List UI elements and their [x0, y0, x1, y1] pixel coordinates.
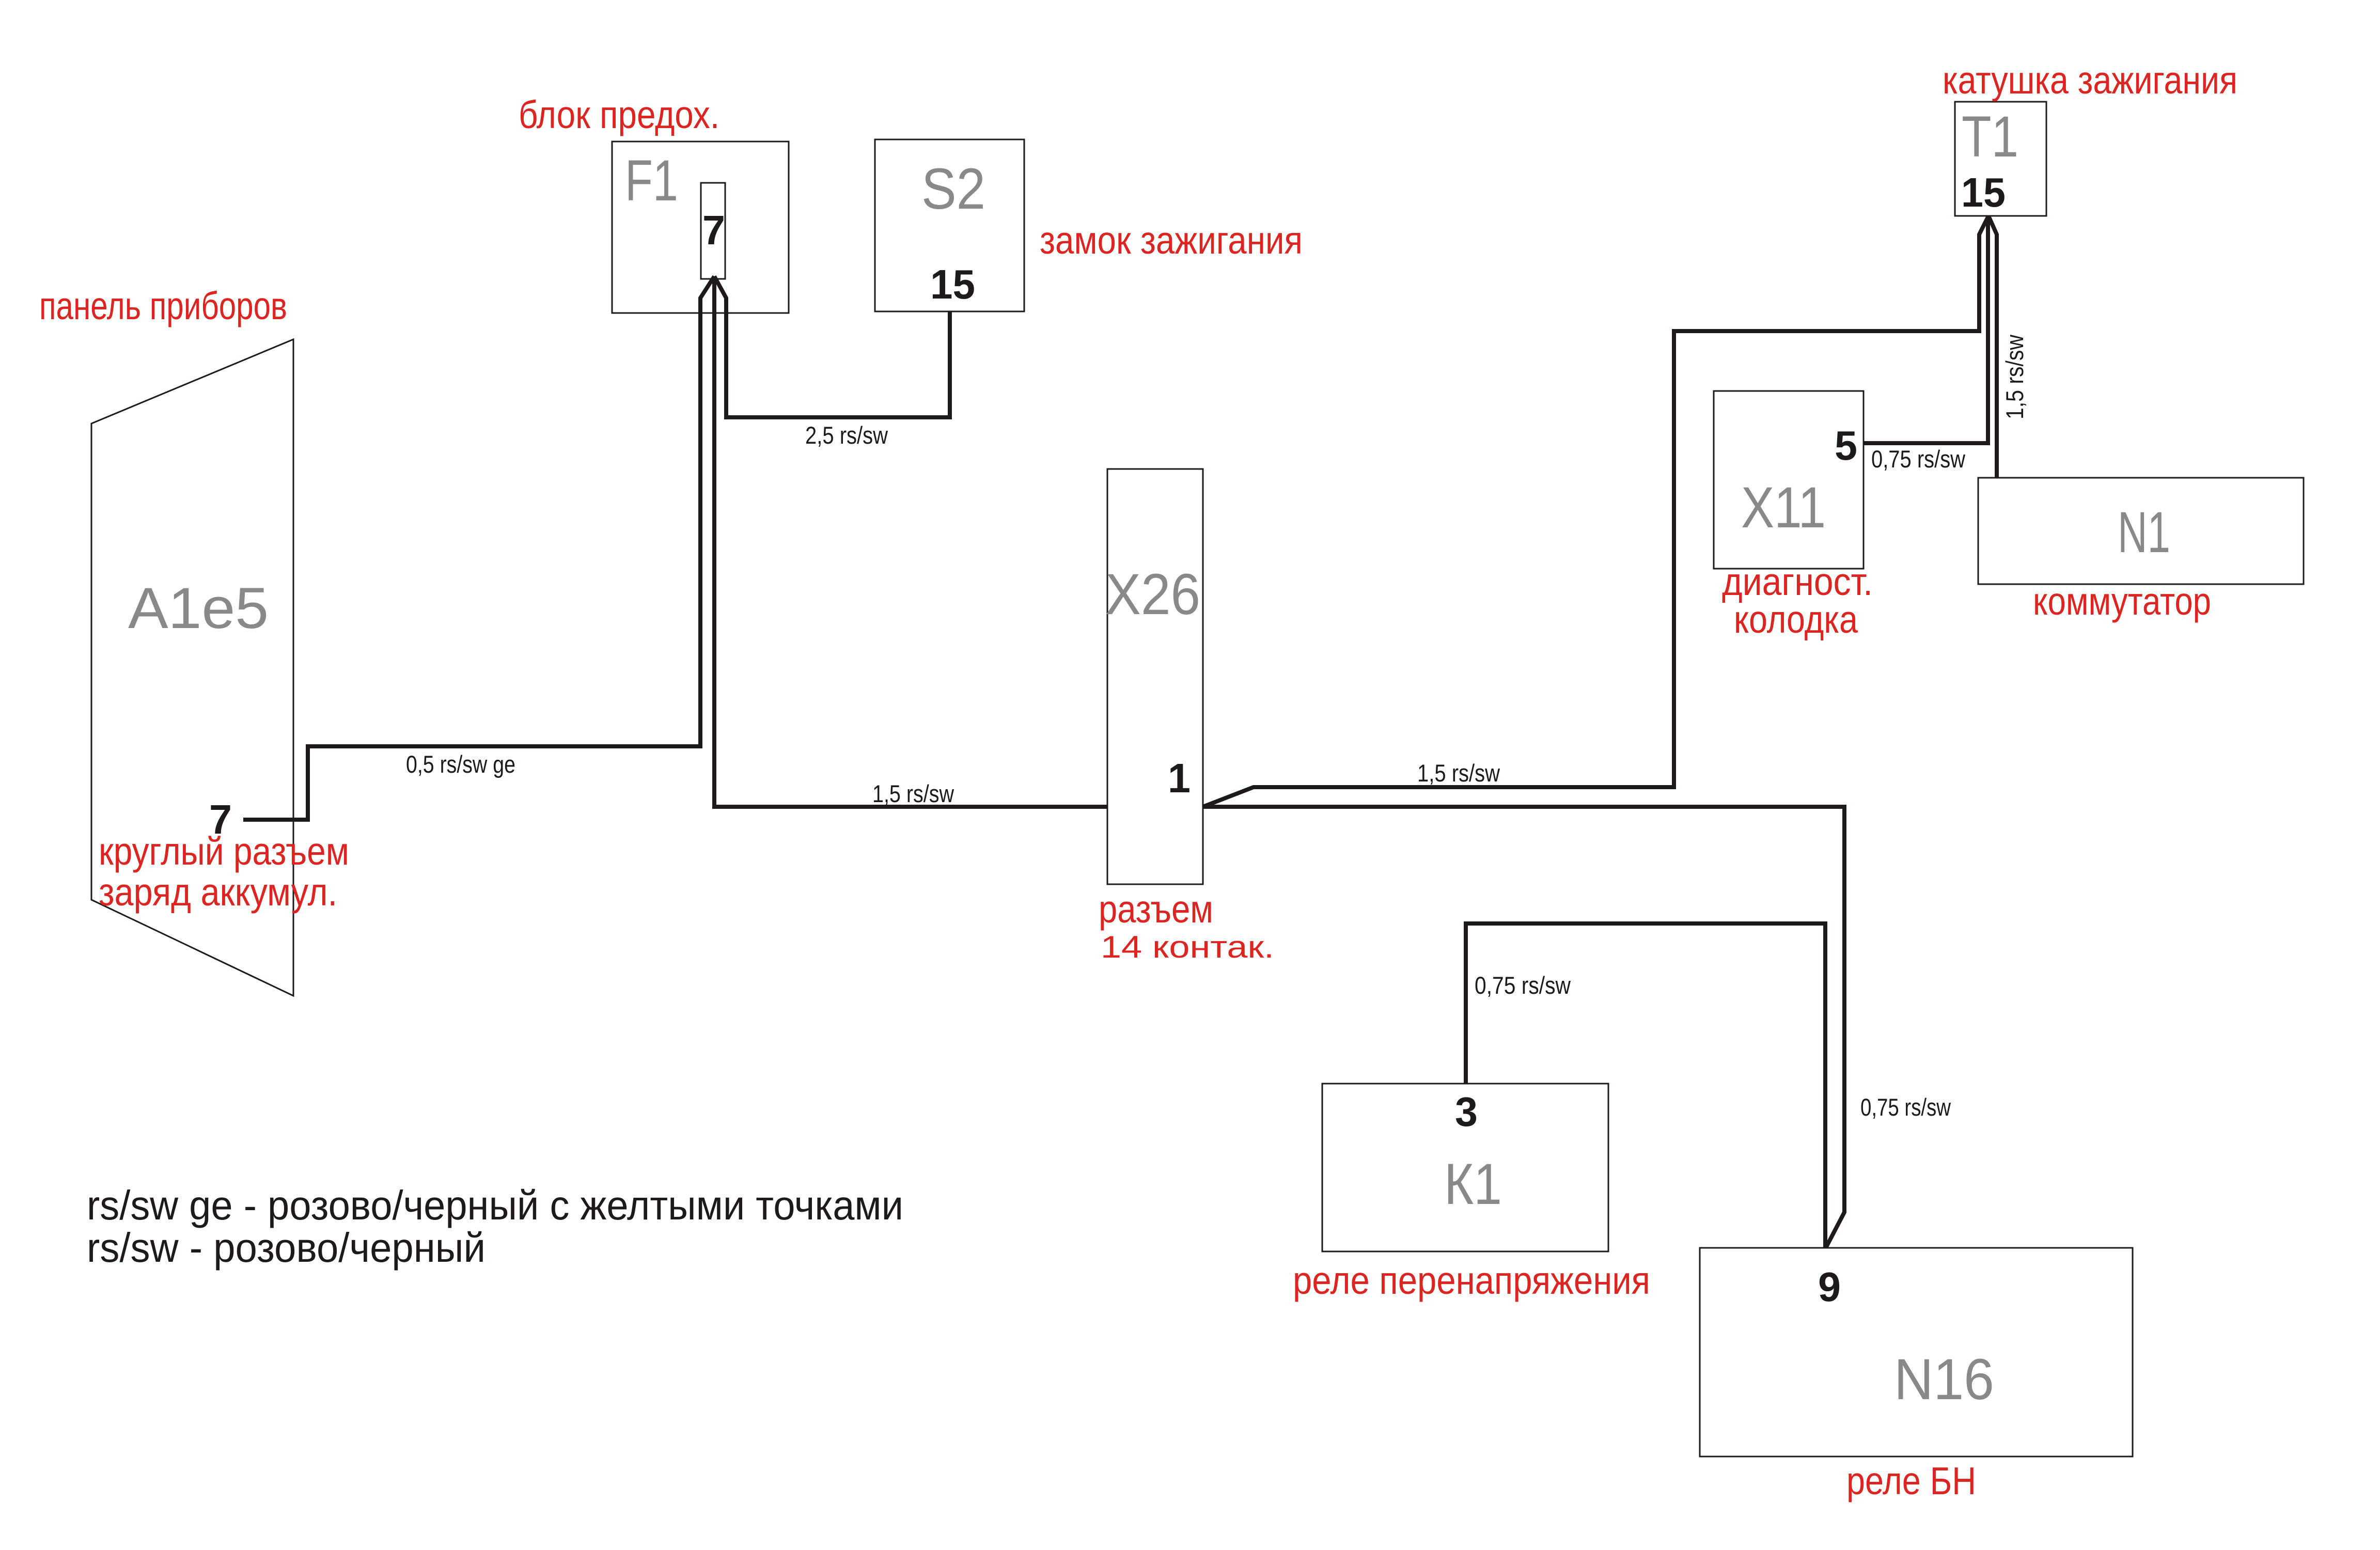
- ignition switch S2: [875, 139, 1024, 311]
- svg-text:T1: T1: [1962, 104, 2018, 169]
- svg-text:S2: S2: [921, 156, 985, 221]
- wire: X11 pin5 to T1 arrow (0,75 rs/sw): [1864, 217, 1988, 443]
- svg-text:реле БН: реле БН: [1846, 1459, 1976, 1502]
- svg-text:1,5 rs/sw: 1,5 rs/sw: [872, 780, 954, 807]
- svg-text:заряд аккумул.: заряд аккумул.: [99, 870, 337, 914]
- panel A1e5 (instrument panel quadrilateral): [91, 339, 293, 996]
- svg-text:F1: F1: [625, 148, 678, 213]
- connector X26: [1107, 469, 1203, 884]
- svg-text:N1: N1: [2118, 500, 2170, 565]
- svg-text:блок предох.: блок предох.: [519, 93, 719, 136]
- svg-text:7: 7: [209, 796, 232, 842]
- svg-text:rs/sw - розово/черный: rs/sw - розово/черный: [87, 1225, 486, 1271]
- svg-text:15: 15: [1961, 169, 2006, 215]
- svg-text:1,5 rs/sw: 1,5 rs/sw: [1417, 759, 1500, 787]
- diagnostic connector X11: [1714, 391, 1864, 569]
- fuse element rectangle: [701, 183, 725, 279]
- svg-text:0,75 rs/sw: 0,75 rs/sw: [1871, 445, 1966, 473]
- wire: K1 pin3 to N16 (0,75 rs/sw): [1466, 923, 1825, 1248]
- svg-text:X11: X11: [1741, 475, 1826, 540]
- svg-text:N16: N16: [1894, 1347, 1994, 1412]
- wire: N1 to T1 arrow right leg (1,5 rs/sw): [1988, 216, 1997, 478]
- svg-text:замок зажигания: замок зажигания: [1040, 218, 1303, 262]
- svg-text:3: 3: [1455, 1089, 1478, 1135]
- svg-text:разъем: разъем: [1099, 887, 1213, 931]
- wire: arrow shaft down, then right to X26 pin 1 (1,5 rs/sw): [714, 276, 1107, 807]
- svg-text:0,5 rs/sw ge: 0,5 rs/sw ge: [406, 750, 515, 778]
- svg-text:5: 5: [1835, 422, 1857, 468]
- svg-text:14 контак.: 14 контак.: [1101, 930, 1274, 964]
- svg-text:9: 9: [1818, 1264, 1841, 1310]
- ignition coil T1: [1955, 102, 2046, 216]
- svg-text:катушка зажигания: катушка зажигания: [1943, 58, 2237, 102]
- svg-text:2,5 rs/sw: 2,5 rs/sw: [805, 421, 888, 449]
- svg-text:X26: X26: [1105, 562, 1200, 627]
- svg-text:rs/sw ge - розово/черный с жел: rs/sw ge - розово/черный с желтыми точка…: [87, 1182, 903, 1228]
- overvoltage relay K1: [1322, 1084, 1608, 1251]
- svg-text:реле перенапряжения: реле перенапряжения: [1293, 1259, 1650, 1302]
- svg-text:1: 1: [1168, 755, 1191, 801]
- svg-text:диагност.: диагност.: [1722, 560, 1873, 603]
- wire: arrow right leg down then to S2 pin 15 (2,5 rs/sw): [714, 276, 950, 417]
- svg-text:0,75 rs/sw: 0,75 rs/sw: [1475, 972, 1571, 999]
- svg-text:колодка: колодка: [1734, 598, 1858, 641]
- svg-text:панель приборов: панель приборов: [39, 284, 287, 327]
- svg-text:К1: К1: [1444, 1152, 1502, 1216]
- wire: X26 pin1 lower branch to N16 pin 9 (0,75 rs/sw): [1203, 807, 1844, 1247]
- arrow into F1 pin 7, left leg wire down to junction: [700, 276, 714, 748]
- svg-text:A1e5: A1e5: [128, 576, 269, 640]
- fuse box F1: [612, 142, 789, 313]
- wire: A1e5 pin7 to F1 junction (0,5 rs/sw ge): [243, 746, 702, 820]
- svg-text:15: 15: [930, 261, 975, 307]
- svg-text:0,75 rs/sw: 0,75 rs/sw: [1860, 1093, 1951, 1121]
- svg-text:1,5 rs/sw: 1,5 rs/sw: [2001, 334, 2028, 419]
- svg-text:7: 7: [702, 207, 725, 253]
- wire: X26 pin1 upper branch to T1 (1,5 rs/sw): [1203, 216, 1988, 807]
- commutator N1: [1978, 478, 2304, 584]
- svg-text:коммутатор: коммутатор: [2033, 580, 2211, 623]
- BN relay N16: [1700, 1248, 2133, 1457]
